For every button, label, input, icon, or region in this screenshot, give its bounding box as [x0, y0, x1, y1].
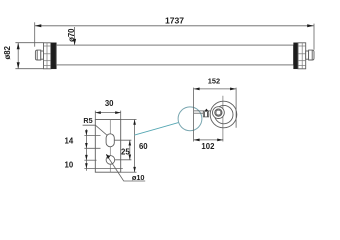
svg-text:ø10: ø10: [132, 173, 145, 182]
side port fitting bars: [204, 112, 207, 117]
dimension 152 line: [194, 88, 237, 90]
detail balloon circle (teal): [178, 107, 202, 131]
side port nipple lines: [194, 111, 211, 113]
side port fitting body: [203, 111, 208, 117]
slot hole (R5): [106, 134, 114, 147]
extension line left (1737): [34, 22, 36, 46]
extension line left (152/102): [193, 88, 195, 142]
dimension 60 arrows: [133, 120, 136, 173]
dimension 1737 arrows: [35, 24, 314, 27]
end view: port circle outer: [213, 107, 225, 119]
R5 leader: [83, 125, 107, 135]
svg-text:14: 14: [65, 136, 74, 145]
svg-text:10: 10: [65, 161, 74, 170]
dimension 30 arrows: [95, 111, 120, 114]
svg-text:1737: 1737: [165, 16, 184, 26]
svg-text:ø82: ø82: [3, 45, 12, 59]
left end cap dark band: [51, 43, 56, 69]
end view: port ring: [215, 109, 222, 116]
detail plate outline: [95, 120, 120, 173]
dimension o10 arrow: [106, 154, 110, 159]
extension lines o82: [15, 43, 43, 69]
left dimension arrows: [85, 130, 88, 168]
left end fitting: nipple large piece: [35, 50, 40, 60]
right end cap collar: [298, 43, 306, 69]
dimension o10 leader: [106, 155, 145, 182]
dimension o82 line: [17, 43, 19, 69]
detail leader line (teal): [135, 123, 179, 136]
dimension o82 arrows: [17, 43, 20, 69]
dimension 60 line: [134, 120, 136, 173]
svg-text:152: 152: [208, 76, 220, 85]
svg-text:25: 25: [121, 148, 130, 157]
dimension 102 arrows: [194, 139, 224, 142]
svg-text:30: 30: [105, 99, 114, 108]
svg-text:60: 60: [139, 142, 148, 151]
right end fitting: nipple large piece: [309, 50, 314, 60]
dimension 25 line: [129, 140, 131, 160]
extension line right (152): [235, 88, 237, 128]
right end cap dark band: [294, 43, 298, 69]
end view: centerline (102 extension): [222, 96, 224, 142]
hole o10: [106, 156, 115, 165]
tube body: [56, 45, 293, 65]
dimension o70 leader line: [74, 27, 76, 45]
dimension 60 extension lines: [121, 120, 137, 173]
extension stubs above plate: [95, 111, 120, 120]
dimension 152 arrows: [194, 88, 237, 91]
left dimension ticks: [84, 136, 122, 169]
end view: outer circle: [210, 101, 237, 128]
svg-text:102: 102: [201, 142, 215, 151]
dimension 25 extension lines: [114, 140, 131, 160]
left end fitting: nipple small step: [41, 51, 44, 59]
svg-text:R5: R5: [83, 116, 92, 125]
left end cap collar: [44, 43, 51, 69]
dimension 1737 line: [35, 25, 314, 27]
end view: port circle inner: [216, 110, 221, 115]
detail plate centerline: [109, 120, 111, 173]
end view: inner circle: [215, 105, 233, 123]
dimension 25 arrows: [129, 140, 132, 160]
right end fitting: nipple small step: [306, 51, 309, 59]
left stacked dimension line: [85, 129, 87, 171]
extension line right (1737): [313, 24, 315, 50]
dimension 102 line: [194, 139, 224, 141]
dimension 30 line: [95, 112, 120, 114]
end view: port hex nut: [216, 109, 222, 116]
side port fitting dark block: [205, 109, 209, 112]
dimension o70 arrow: [73, 39, 76, 45]
